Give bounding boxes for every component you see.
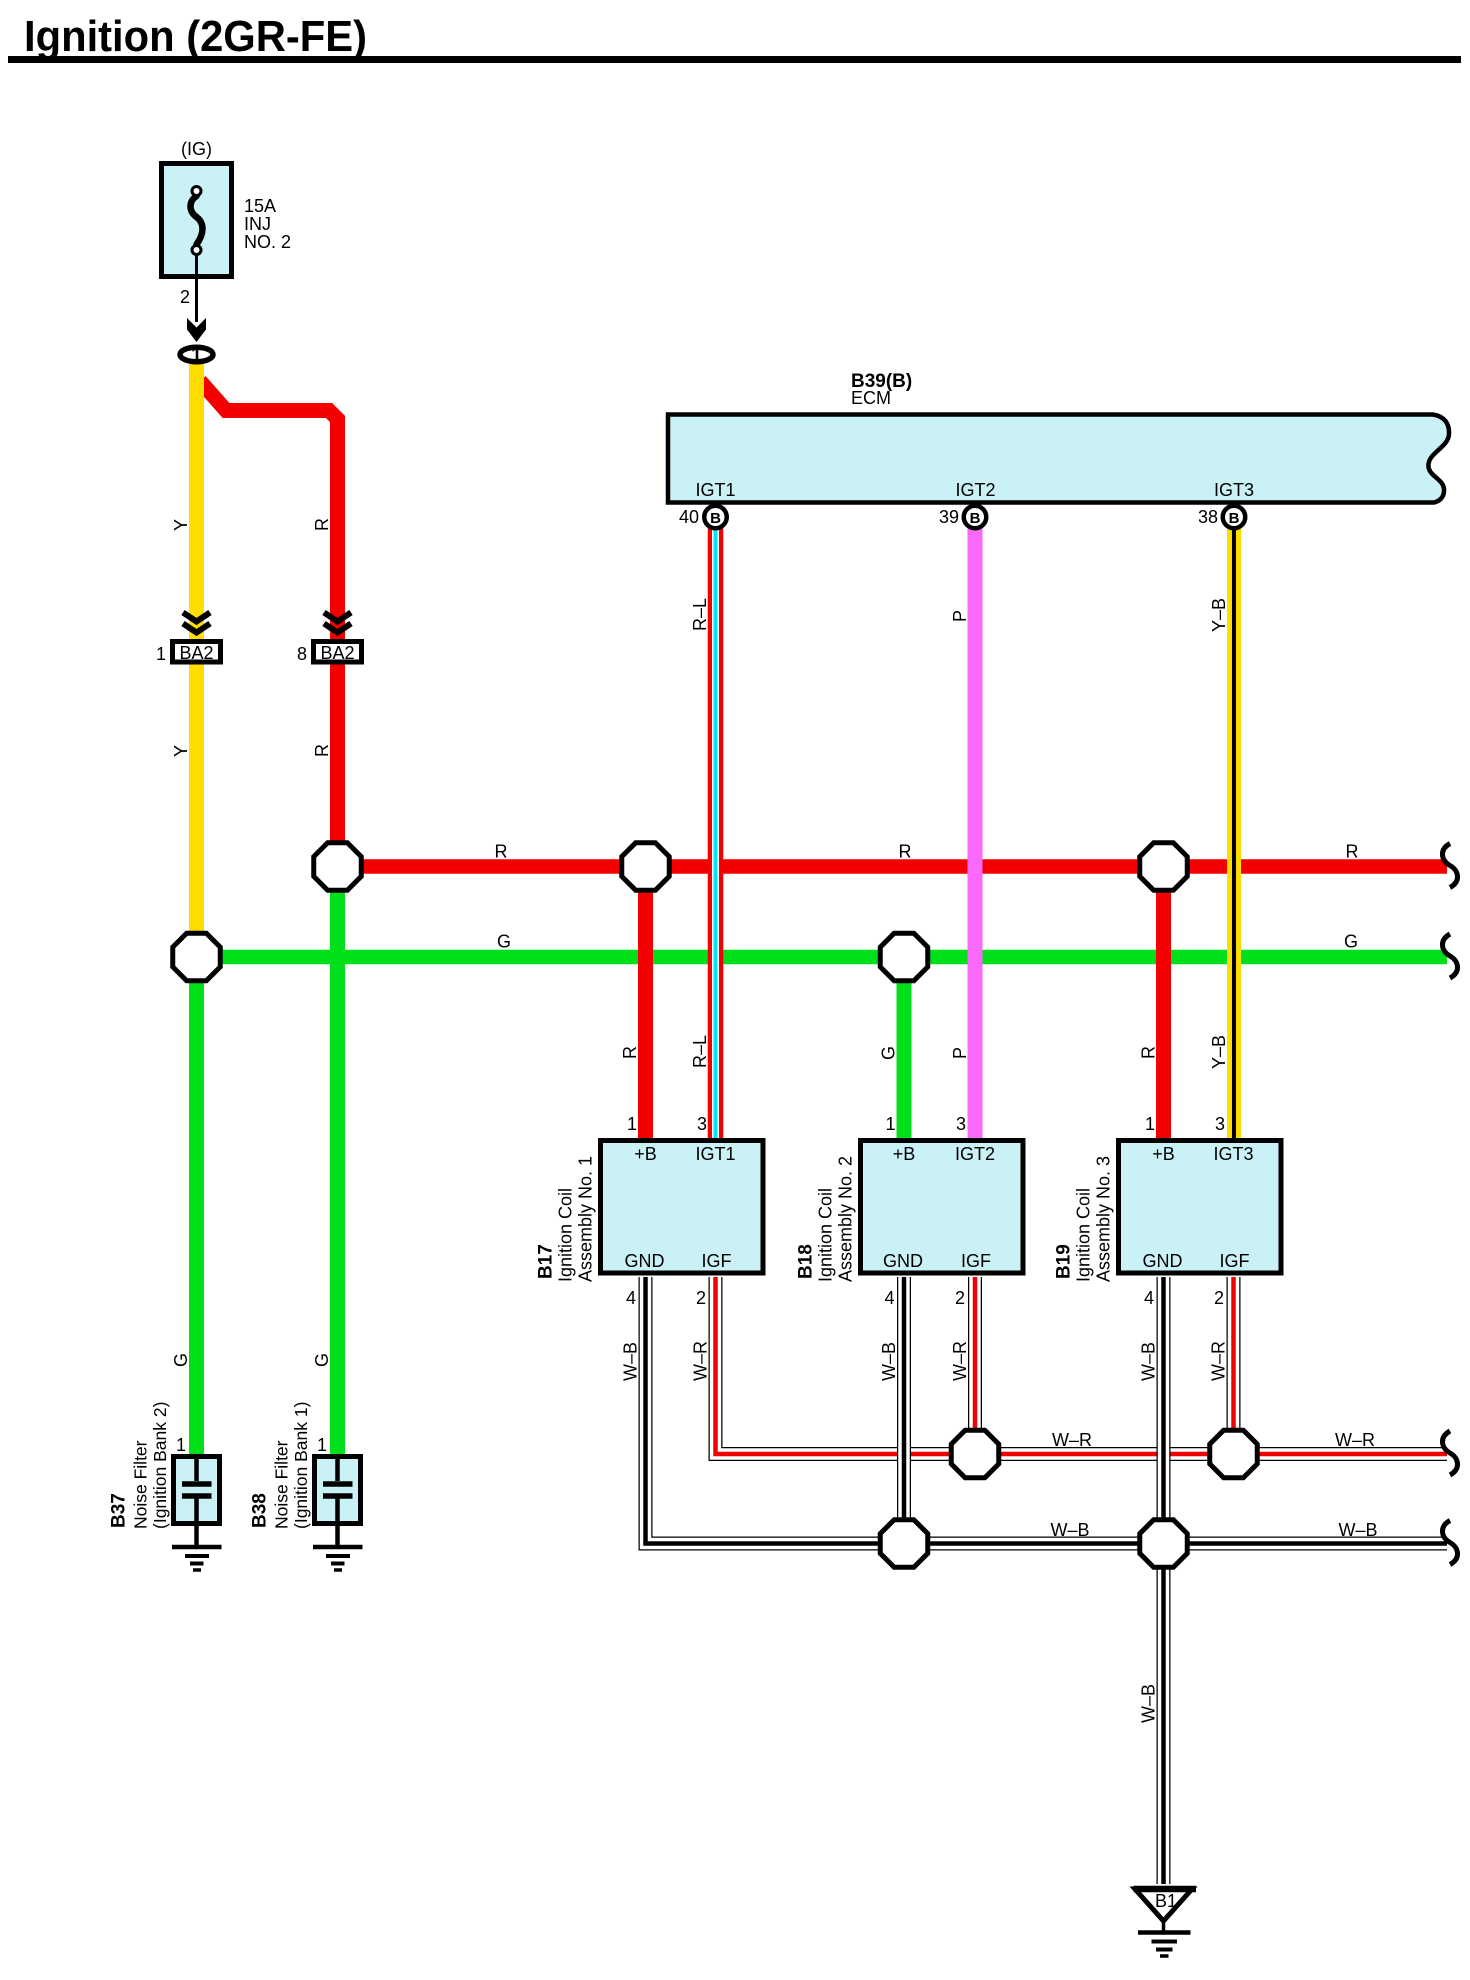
svg-text:GND: GND [625,1251,665,1271]
connector BA2 pin 8 [297,613,362,665]
wire G (junction A down to noise filter B38) [330,867,345,1457]
connector node 1 (ellipse) [180,347,213,361]
svg-text:R: R [1139,1046,1159,1059]
ignition coil B18 [796,1114,1024,1308]
svg-text:W–B: W–B [1338,1520,1377,1540]
wire W-B (B19 GND down) [1157,1277,1171,1544]
svg-text:4: 4 [626,1288,636,1308]
wire P (ECM IGT2 pin 39 to B18 IGT2) [968,525,983,1142]
svg-text:3: 3 [956,1114,966,1134]
wire W-B (junction I down to ground B1) [1157,1544,1171,1885]
svg-text:1: 1 [176,1435,186,1455]
noise filter B38 [250,1402,361,1545]
svg-text:B: B [710,510,721,527]
ignition coil B19 [1054,1114,1282,1308]
junction H [880,1520,928,1568]
svg-text:39: 39 [939,507,959,527]
ECM pin 39 B [939,506,986,529]
svg-text:P: P [950,1047,970,1059]
svg-text:G: G [1344,932,1358,952]
junction F [951,1430,999,1478]
wire W-R (B19 IGF down) [1227,1277,1241,1454]
tear mark G bus [1442,934,1457,978]
tear mark R bus [1442,844,1457,888]
svg-text:1: 1 [156,644,166,664]
wire R (junction E down to B19 +B) [1156,867,1171,1143]
svg-text:8: 8 [297,644,307,664]
svg-text:Y: Y [171,519,191,531]
svg-text:40: 40 [679,507,699,527]
svg-text:(Ignition Bank 1): (Ignition Bank 1) [291,1402,311,1529]
ignition coil B17 [536,1114,764,1308]
svg-text:W–R: W–R [1052,1430,1092,1450]
junction B [622,843,670,891]
noise filter B37 [109,1402,220,1545]
svg-text:1: 1 [1145,1114,1155,1134]
svg-text:W–R: W–R [691,1341,711,1381]
svg-text:2: 2 [1214,1288,1224,1308]
svg-text:GND: GND [883,1251,923,1271]
svg-text:R: R [312,744,332,757]
svg-text:Y–B: Y–B [1209,598,1229,632]
wire G (junction D down to B18 +B) [897,957,912,1142]
junction C [173,933,221,981]
svg-text:W–R: W–R [1335,1430,1375,1450]
svg-text:BA2: BA2 [320,643,354,663]
ground (B37) [172,1547,222,1570]
wire Y (fuse connector 1 down to junction) [189,362,204,934]
arrow into connector [187,318,206,342]
svg-text:GND: GND [1143,1251,1183,1271]
svg-text:BA2: BA2 [179,643,213,663]
wire W-B (B18 GND down) [897,1277,911,1544]
svg-text:4: 4 [1144,1288,1154,1308]
wire G (junction C down to noise filter B37) [189,957,204,1456]
svg-text:4: 4 [884,1288,894,1308]
wire W-B (B17 GND to bus and right tear) [646,1277,1448,1544]
svg-text:1: 1 [317,1435,327,1455]
wire Y-B (ECM IGT3 pin 38 to B19 IGT3) [1227,525,1241,1142]
tear mark W-R bus [1442,1431,1457,1475]
tear mark W-B bus [1442,1521,1457,1565]
wire W-R (B17 IGF to bus and right tear) [716,1277,1448,1454]
svg-text:G: G [497,932,511,952]
ground B1 [1134,1889,1197,1956]
svg-text:Ignition (2GR-FE): Ignition (2GR-FE) [24,12,367,61]
wire R-L (ECM IGT1 pin 40 to B17 IGT1) [708,525,724,1142]
svg-text:+B: +B [1152,1144,1175,1164]
svg-text:G: G [879,1046,899,1060]
svg-text:G: G [171,1353,191,1367]
svg-text:2: 2 [180,287,190,307]
svg-text:R: R [312,518,332,531]
svg-text:B38: B38 [250,1493,271,1528]
svg-text:15A: 15A [244,196,276,216]
svg-text:B: B [1229,510,1240,527]
svg-text:1: 1 [885,1114,895,1134]
svg-text:(Ignition Bank 2): (Ignition Bank 2) [150,1402,170,1529]
svg-text:R–L: R–L [690,1035,710,1068]
svg-text:G: G [312,1353,332,1367]
junction D [880,933,928,981]
svg-text:1: 1 [191,345,202,366]
svg-text:2: 2 [696,1288,706,1308]
svg-text:IGF: IGF [961,1251,991,1271]
svg-text:R: R [495,842,508,862]
svg-text:3: 3 [1215,1114,1225,1134]
connector BA2 pin 1 [156,613,221,665]
svg-text:INJ: INJ [244,214,271,234]
svg-text:NO. 2: NO. 2 [244,232,291,252]
wire G horizontal bus [197,950,1448,965]
svg-text:W–B: W–B [1139,1684,1159,1723]
svg-text:2: 2 [955,1288,965,1308]
svg-text:W–R: W–R [1209,1341,1229,1381]
svg-text:IGF: IGF [702,1251,732,1271]
svg-text:Noise Filter: Noise Filter [272,1440,292,1529]
svg-text:IGT2: IGT2 [955,1144,995,1164]
junction G [1210,1430,1258,1478]
junction E [1140,843,1188,891]
svg-text:B17: B17 [536,1244,557,1279]
svg-text:R–L: R–L [690,598,710,631]
ECM pin 40 B [679,506,727,529]
svg-text:IGT1: IGT1 [695,1144,735,1164]
svg-text:Y: Y [171,745,191,757]
svg-text:W–B: W–B [1050,1520,1089,1540]
svg-text:ECM: ECM [851,388,891,408]
svg-text:B19: B19 [1054,1244,1075,1279]
junction I [1140,1520,1188,1568]
svg-text:Assembly No. 2: Assembly No. 2 [836,1156,856,1282]
svg-text:Assembly No. 3: Assembly No. 3 [1094,1156,1114,1282]
svg-text:IGT3: IGT3 [1214,480,1254,500]
svg-text:P: P [950,610,970,622]
svg-text:38: 38 [1198,507,1218,527]
svg-text:3: 3 [697,1114,707,1134]
ECM pin 38 B [1198,506,1245,529]
svg-text:Ignition Coil: Ignition Coil [556,1188,576,1282]
wire R horizontal bus [338,859,1448,874]
svg-text:B18: B18 [796,1244,817,1279]
svg-text:W–B: W–B [621,1342,641,1381]
ground (B38) [313,1547,363,1570]
svg-text:IGT3: IGT3 [1213,1144,1253,1164]
wire W-R (B18 IGF down) [968,1277,982,1454]
wire R (junction B down to B17 +B) [638,867,653,1143]
svg-text:Assembly No. 1: Assembly No. 1 [576,1156,596,1282]
svg-text:B37: B37 [109,1493,130,1528]
svg-text:1: 1 [627,1114,637,1134]
svg-text:R: R [1346,842,1359,862]
wire fuse lead [195,255,198,322]
svg-text:W–B: W–B [879,1342,899,1381]
svg-text:B: B [970,510,981,527]
svg-text:Ignition Coil: Ignition Coil [1074,1188,1094,1282]
svg-text:Noise Filter: Noise Filter [131,1440,151,1529]
svg-text:(IG): (IG) [181,139,212,159]
svg-text:Ignition Coil: Ignition Coil [816,1188,836,1282]
svg-text:R: R [899,842,912,862]
wire R (fuse output branch to BA2 pin 8) [200,381,338,845]
svg-text:W–R: W–R [950,1341,970,1381]
svg-text:R: R [620,1046,640,1059]
junction A [314,843,362,891]
svg-text:+B: +B [634,1144,657,1164]
svg-text:W–B: W–B [1139,1342,1159,1381]
svg-text:Y–B: Y–B [1209,1035,1229,1069]
svg-text:IGF: IGF [1220,1251,1250,1271]
ECM B39(B) box [668,371,1449,503]
fuse 15A INJ NO. 2 (IG) [162,139,292,277]
svg-text:IGT1: IGT1 [695,480,735,500]
svg-text:IGT2: IGT2 [955,480,995,500]
svg-text:+B: +B [893,1144,916,1164]
svg-text:B1: B1 [1155,1891,1177,1911]
